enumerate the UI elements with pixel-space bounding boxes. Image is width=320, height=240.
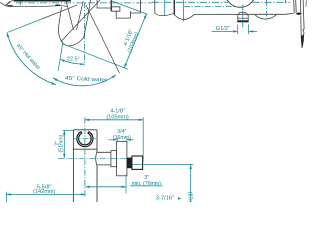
hose nipple dark <box>127 158 132 169</box>
handle rotation centerline vertical from pivot <box>84 2 86 65</box>
side view escutcheon plate <box>293 0 296 13</box>
supply arm cylinder <box>97 152 111 165</box>
centerline tick right <box>284 0 286 3</box>
handle position line 45 deg hot <box>42 5 77 19</box>
supply arm step <box>111 151 117 167</box>
centerline lever vertical <box>19 0 21 5</box>
svg-text:45° Cold water: 45° Cold water <box>65 76 107 84</box>
holder centerline vertical <box>84 118 86 198</box>
outlet centerline <box>183 0 185 22</box>
svg-text:G1/2": G1/2" <box>216 26 230 32</box>
holder bracket outline <box>73 129 97 131</box>
wall escutcheon plate side <box>117 142 127 176</box>
handle knob down position (bullet) <box>58 0 90 46</box>
hose connector square <box>132 156 143 169</box>
centerline main horizontal <box>16 2 152 4</box>
dimension 4-1/16 diagonal <box>111 1 148 15</box>
spout piece front view <box>154 0 156 13</box>
arc dimension 45 hot water <box>7 33 56 85</box>
svg-text:3-7/16": 3-7/16" <box>156 195 174 201</box>
handle blade edge diagonal <box>61 0 100 42</box>
svg-text:(51mm): (51mm) <box>59 134 65 152</box>
handle blade wedge down position <box>66 1 73 30</box>
lever handle front view pointing left <box>0 0 71 7</box>
arc dimension 45 cold water <box>53 75 116 86</box>
holder centerline horizontal <box>74 138 96 140</box>
escutcheon circle front <box>225 0 256 7</box>
svg-text:(87mm): (87mm) <box>187 192 193 202</box>
arc dimension 22.5 <box>61 59 85 64</box>
G1/2 nipple <box>238 13 249 16</box>
handle tip reference line steep <box>58 44 62 71</box>
dimension 3-7/16 (87mm) vertical <box>132 163 193 165</box>
svg-text:22.5°: 22.5° <box>67 56 80 62</box>
svg-text:4-1/8": 4-1/8" <box>110 108 125 114</box>
spout centerline <box>164 0 166 15</box>
side view pivot cap <box>296 13 301 15</box>
escutcheon centerline <box>265 0 267 20</box>
G1/2 extension lines <box>237 24 239 34</box>
handle blade line 22.5 cold reaching arc <box>86 5 120 73</box>
dimension 2in (51mm) <box>63 130 65 158</box>
valve body blocks under pivot <box>97 0 111 8</box>
holder clip C-ring <box>78 133 92 146</box>
nipple centerline <box>242 5 244 28</box>
side view handle hanging <box>301 0 305 48</box>
handle tip reference line to dimension <box>63 44 129 70</box>
arm centerline <box>58 157 131 159</box>
second horizontal centerline <box>184 6 236 8</box>
body underside outline <box>174 13 293 19</box>
